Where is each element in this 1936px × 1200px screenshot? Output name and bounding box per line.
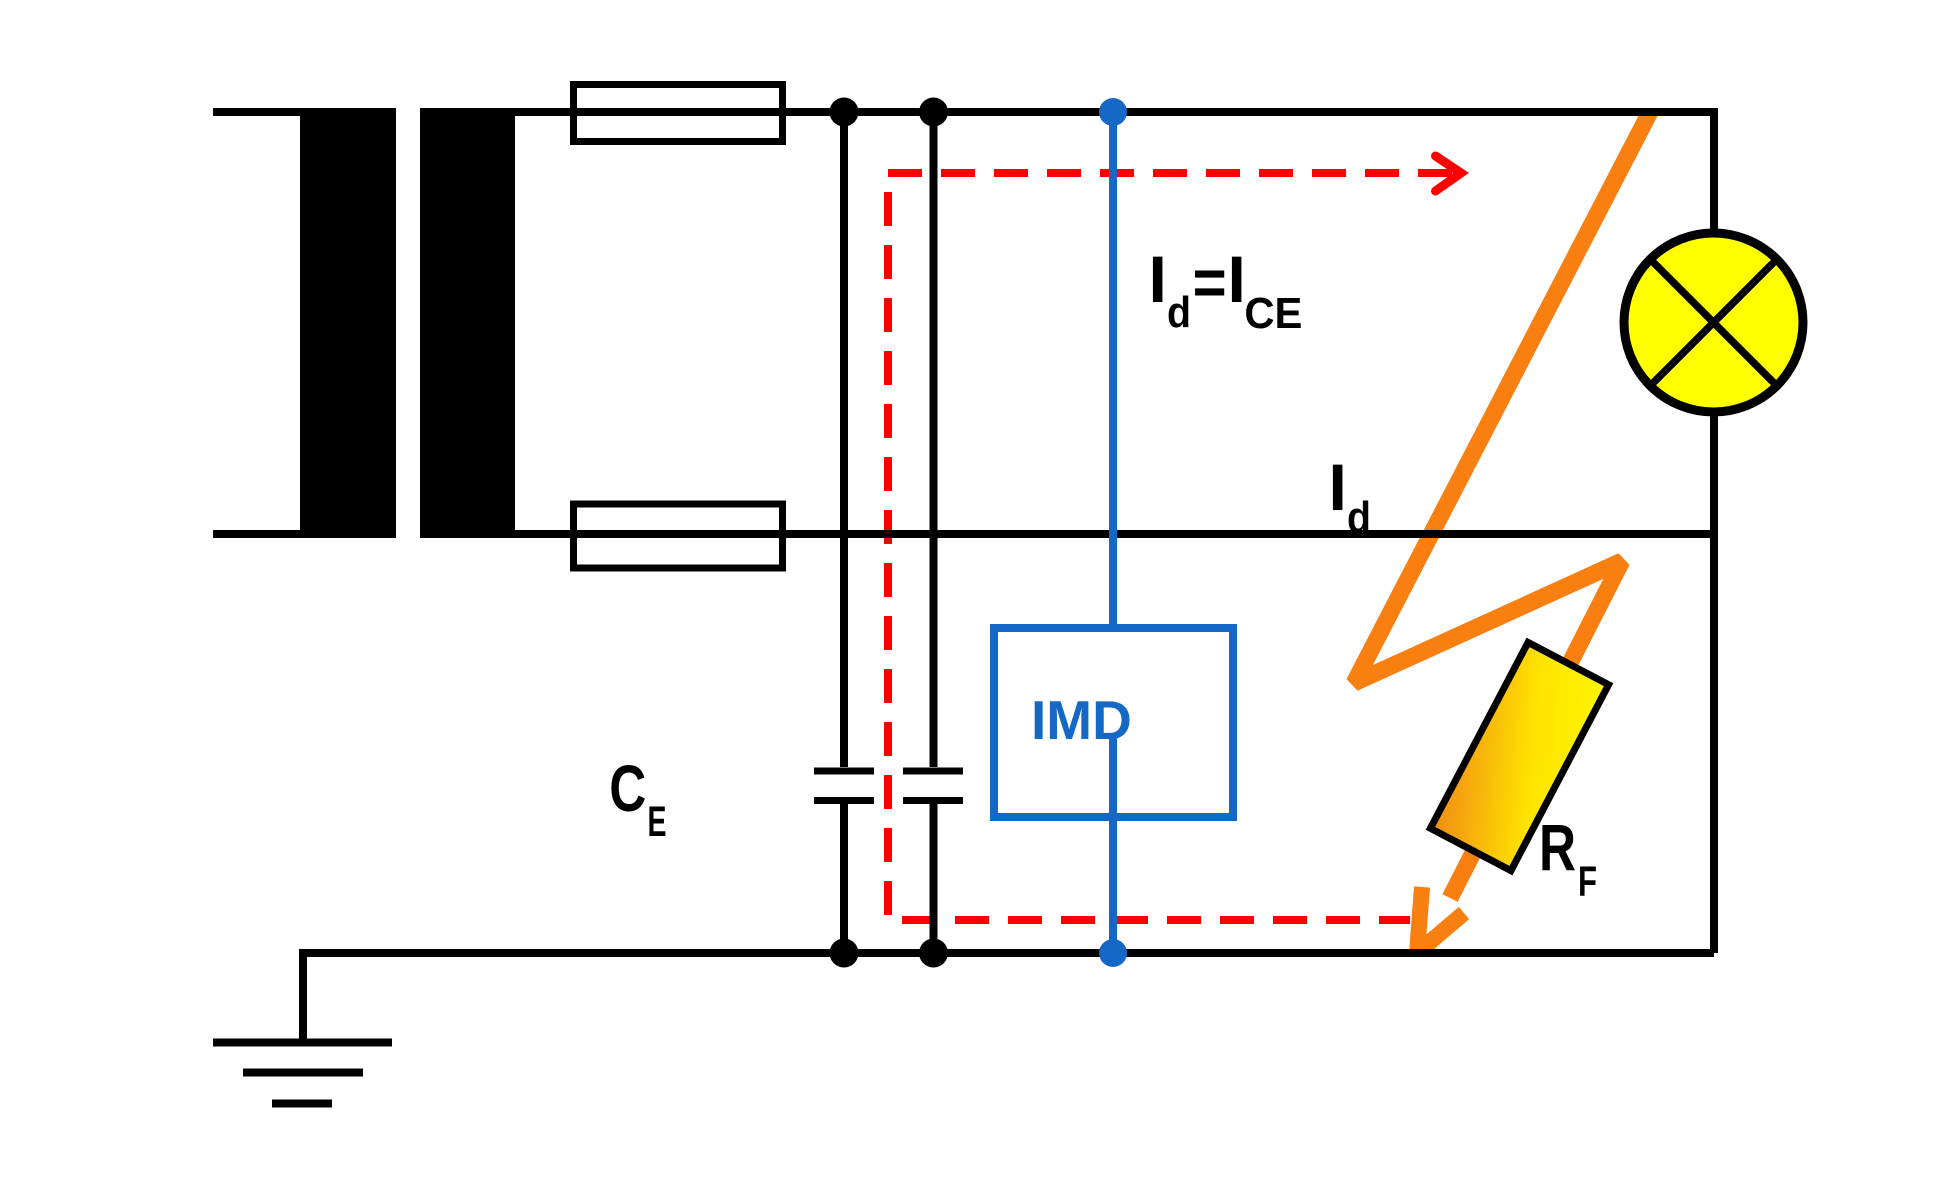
fuse F2 [574, 504, 783, 568]
svg-text:IMD: IMD [1031, 689, 1132, 751]
junction dot top-right [919, 98, 948, 127]
IMD wire lower (blue) [1109, 738, 1117, 953]
ground bar 2 [243, 1069, 363, 1077]
svg-text:CE: CE [1244, 289, 1302, 338]
capacitor CE1 wire [840, 112, 848, 953]
svg-text:R: R [1539, 810, 1576, 884]
junction dot top-left [830, 98, 859, 127]
resistor RF [1430, 642, 1608, 870]
fuse F1 [574, 85, 783, 142]
ground bar 1 [213, 1039, 392, 1047]
svg-text:I: I [1228, 242, 1246, 316]
svg-text:d: d [1167, 288, 1191, 337]
svg-text:E: E [648, 799, 667, 846]
capacitor CE1 plates [814, 771, 874, 801]
junction dot bottom-right [919, 939, 948, 968]
IMD box U1 [994, 628, 1233, 817]
svg-text:I: I [1149, 242, 1167, 316]
lamp L1 [1624, 233, 1803, 412]
wire right edge [1710, 108, 1718, 953]
lamp X [1653, 262, 1775, 384]
ground bar 3 [272, 1100, 332, 1108]
svg-text:C: C [609, 751, 646, 825]
fault current path (red dashed) [888, 173, 1452, 920]
svg-text:F: F [1578, 859, 1597, 906]
IMD wire upper (blue) [1109, 112, 1117, 624]
junction dot bottom-left [830, 939, 859, 968]
svg-text:I: I [1329, 450, 1347, 524]
wire top (L+) [213, 108, 1714, 116]
capacitor CE2 wire [930, 112, 938, 953]
transformer T1 primary bar [300, 109, 396, 536]
svg-text:d: d [1347, 493, 1371, 542]
node dot blue top [1099, 98, 1127, 126]
svg-text:=: = [1193, 245, 1227, 319]
node dot blue bottom [1099, 939, 1127, 967]
fault bolt (orange) [1354, 112, 1650, 898]
capacitor CE2 plates [903, 771, 963, 801]
transformer T1 secondary bar [420, 109, 515, 536]
wire mid (L-) [213, 530, 1714, 538]
wire bottom (earth) [303, 949, 1714, 957]
wire ground stub [299, 949, 307, 1042]
red arrowhead [1436, 156, 1462, 191]
